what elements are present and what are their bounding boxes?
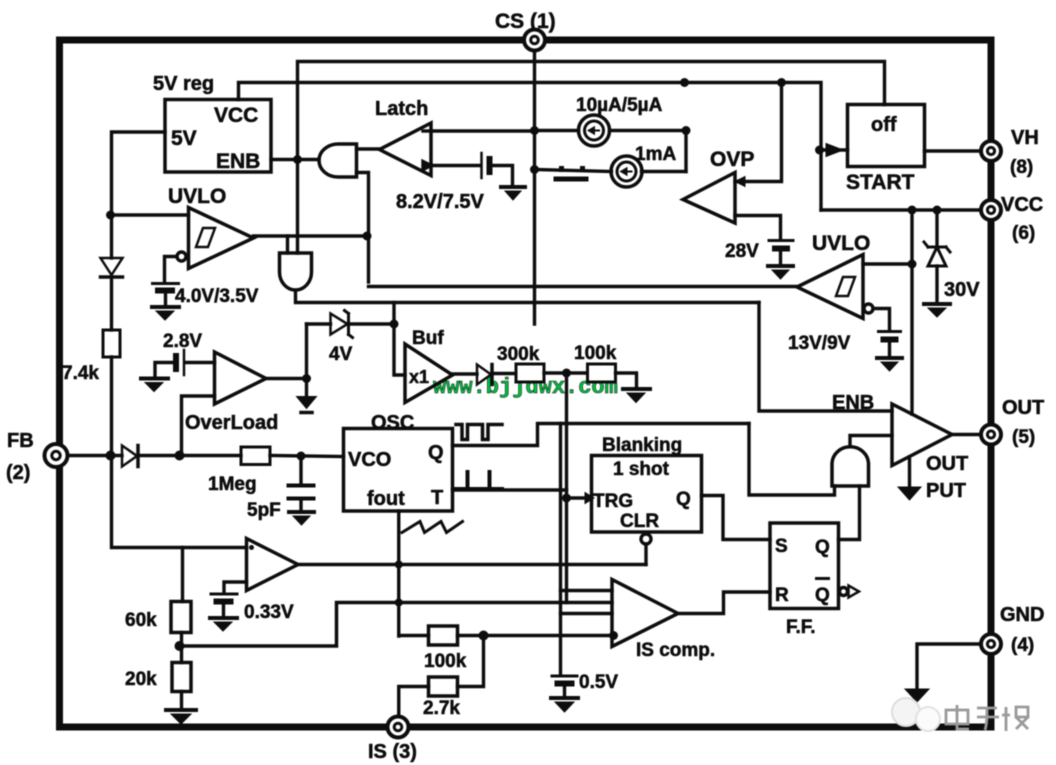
glyph 报 bbox=[1002, 707, 1028, 731]
terminals bottom bbox=[45, 425, 1002, 738]
svg-text:0.5V: 0.5V bbox=[579, 672, 618, 693]
svg-text:Blanking: Blanking bbox=[602, 435, 682, 456]
capacitor C1 5pF bbox=[299, 456, 302, 483]
pin CS (1) bbox=[524, 30, 545, 51]
svg-text:Buf: Buf bbox=[412, 328, 444, 349]
svg-text:UVLO: UVLO bbox=[812, 232, 870, 255]
svg-text:5V: 5V bbox=[171, 127, 197, 150]
ground arrow below driver bbox=[908, 457, 911, 487]
wire buf output bbox=[453, 372, 478, 375]
wire uvlo1 plus input bbox=[111, 213, 189, 216]
node FB left chain bbox=[110, 215, 113, 258]
svg-text:20k: 20k bbox=[125, 669, 157, 690]
svg-text:13V/9V: 13V/9V bbox=[788, 333, 851, 354]
wire G1 input from latch bbox=[357, 147, 380, 150]
svg-text:Latch: Latch bbox=[375, 98, 428, 120]
wire OVP minus input bbox=[735, 216, 781, 239]
svg-text:Q: Q bbox=[815, 585, 830, 606]
svg-text:1mA: 1mA bbox=[635, 144, 676, 165]
terminals bbox=[524, 30, 1001, 221]
svg-text:100k: 100k bbox=[574, 343, 617, 364]
battery 8.2V/7.5V bbox=[480, 153, 483, 178]
comparator OverLoad (points right) bbox=[215, 352, 267, 404]
comparator OVP (points left) bbox=[683, 173, 735, 224]
hysteresis symbol bbox=[836, 277, 855, 296]
pin FB (2) bbox=[45, 444, 68, 467]
resistor R5 60k bbox=[171, 602, 191, 633]
svg-text:UVLO: UVLO bbox=[168, 185, 226, 208]
svg-text:Q: Q bbox=[428, 442, 444, 464]
ground below 4.0V/3.5V bbox=[152, 305, 179, 309]
svg-text:IS comp.: IS comp. bbox=[636, 640, 715, 661]
5V regulator box U1 bbox=[165, 100, 271, 173]
driver OUT stage U7 bbox=[892, 404, 952, 466]
latch input tick top bbox=[423, 129, 431, 132]
wire START to VH bbox=[925, 149, 984, 152]
svg-text:(5): (5) bbox=[1012, 427, 1035, 448]
pin VH (8) bbox=[981, 141, 1001, 161]
wire comp output to CLR bbox=[298, 563, 646, 566]
svg-text:ENB: ENB bbox=[832, 392, 874, 414]
battery 28V bbox=[769, 239, 793, 242]
svg-text:10µA/5µA: 10µA/5µA bbox=[576, 95, 663, 116]
pin GND (4) bbox=[981, 634, 1001, 654]
svg-text:off: off bbox=[871, 114, 897, 136]
switch contact on CS net bbox=[559, 166, 564, 172]
ground left of 2.8V bbox=[141, 377, 168, 381]
svg-text:2.8V: 2.8V bbox=[163, 331, 202, 352]
wire minus input + battery 0.33V bbox=[224, 582, 247, 592]
wire OverLoad plus input + battery 2.8V bbox=[186, 361, 215, 364]
svg-text:FB: FB bbox=[7, 430, 34, 452]
and-gate G3 (points up) bbox=[832, 447, 869, 486]
waveform sawtooth fout bbox=[402, 522, 463, 533]
IC outline border bbox=[60, 40, 992, 727]
svg-text:OUT: OUT bbox=[1002, 397, 1044, 419]
svg-text:GND: GND bbox=[1000, 604, 1044, 626]
wire FF Q to and gate bbox=[839, 486, 860, 540]
ground below 30V bbox=[924, 302, 950, 306]
battery 0.5V bbox=[552, 675, 577, 678]
svg-text:1Meg: 1Meg bbox=[208, 474, 257, 495]
svg-text:OverLoad: OverLoad bbox=[185, 412, 278, 434]
vertical 4V net with arrow ground bbox=[305, 324, 308, 397]
resistor R4 100k bbox=[588, 364, 616, 382]
box START/off U2 bbox=[848, 105, 925, 167]
svg-text:(4): (4) bbox=[1011, 635, 1034, 656]
svg-text:T: T bbox=[431, 487, 443, 509]
vertical Q net down bbox=[559, 424, 562, 676]
wire 1mA branch y170 bbox=[535, 170, 612, 172]
CS net dots bbox=[530, 126, 539, 135]
wire to ENB driver bbox=[759, 303, 892, 412]
svg-text:Q: Q bbox=[815, 537, 830, 558]
wire OverLoad minus input from FB bbox=[182, 396, 215, 456]
comparator Latch (points left) bbox=[380, 123, 432, 176]
pin OUT (5) bbox=[981, 425, 1001, 445]
wire vcc-reg bus y82 bbox=[239, 83, 822, 211]
wire uvlo2 output bbox=[369, 285, 798, 288]
wire OSC T output bbox=[453, 488, 567, 491]
wire vcc to enb driver bbox=[910, 210, 913, 414]
wire driver output to OUT pin bbox=[952, 433, 982, 436]
wire OSC Q output bbox=[453, 424, 750, 446]
wire 4V node up to G2 output wire bbox=[392, 303, 395, 325]
comparator UVLO2 (points left) bbox=[797, 255, 863, 319]
svg-text:OVP: OVP bbox=[710, 148, 754, 171]
resistor R3 300k bbox=[516, 364, 544, 382]
ground for latch battery bbox=[501, 185, 525, 189]
bubble uvlo2 bbox=[864, 304, 873, 313]
wire latch bottom input bbox=[431, 164, 480, 167]
diode D1 (cathode down) bbox=[101, 258, 123, 275]
svg-text:CLR: CLR bbox=[620, 511, 659, 532]
svg-text:PUT: PUT bbox=[926, 480, 966, 502]
resistor R7 100k bbox=[429, 626, 458, 645]
wire 60k/20k node to IS comp minus bbox=[180, 603, 613, 647]
battery 13V/9V bbox=[879, 330, 901, 333]
box Blanking 1-shot U5 bbox=[592, 456, 702, 533]
resistor R2 1Meg bbox=[241, 447, 270, 465]
svg-text:START: START bbox=[846, 171, 915, 194]
wire IS stub top bbox=[561, 589, 613, 592]
svg-text:0.33V: 0.33V bbox=[244, 602, 294, 623]
bubble uvlo1 bbox=[177, 252, 186, 261]
ground below 13V/9V bbox=[877, 356, 902, 360]
battery 4.0V/3.5V bbox=[153, 282, 179, 285]
resistor R1 7.4k bbox=[103, 330, 120, 357]
svg-text:R: R bbox=[775, 585, 789, 606]
logo dianzibao (pale) bbox=[892, 698, 1028, 731]
wire 100k/2.7k sense network bbox=[484, 634, 613, 637]
svg-text:8.2V/7.5V: 8.2V/7.5V bbox=[396, 191, 485, 213]
svg-text:(8): (8) bbox=[1010, 157, 1033, 178]
svg-text:F.F.: F.F. bbox=[786, 617, 816, 638]
wire uvlo1 output bbox=[254, 234, 369, 237]
glyph 子 bbox=[977, 708, 999, 730]
bubble CLR bbox=[641, 534, 651, 544]
svg-text:Q: Q bbox=[676, 489, 691, 510]
buffer U3 x1 bbox=[405, 344, 453, 403]
wire G1 lower input bbox=[357, 173, 369, 283]
wire OVP plus input bbox=[735, 83, 782, 182]
wire 5V pin bbox=[112, 132, 166, 215]
bubble FF Qbar + arrow bbox=[840, 588, 848, 596]
wire G3 output to driver bbox=[850, 436, 892, 446]
svg-text:4.0V/3.5V: 4.0V/3.5V bbox=[175, 286, 259, 307]
ground below 20k bbox=[166, 708, 196, 712]
svg-text:100k: 100k bbox=[424, 651, 467, 672]
wire FB node down to comparator bbox=[112, 456, 247, 548]
G2 input stubs bbox=[286, 236, 289, 253]
wire 60k tap bbox=[181, 548, 184, 602]
svg-text:7.4k: 7.4k bbox=[62, 363, 99, 384]
waveform T glyph bbox=[456, 472, 502, 489]
svg-text:1 shot: 1 shot bbox=[613, 459, 670, 480]
ground below 100k bbox=[623, 387, 650, 391]
svg-text:5pF: 5pF bbox=[247, 500, 281, 521]
node CS vertical bbox=[533, 40, 536, 324]
wire OverLoad output bbox=[266, 377, 307, 380]
wire into START bbox=[821, 148, 848, 151]
wire 100k node down to TRG net bbox=[565, 373, 568, 603]
wire latch top input bbox=[431, 129, 535, 132]
wire uvlo1 minus input bbox=[165, 257, 178, 282]
svg-text:(2): (2) bbox=[6, 462, 30, 484]
box OSC U4 bbox=[344, 429, 453, 512]
current source I1 10uA/5uA bbox=[535, 129, 579, 132]
pin VCC (6) bbox=[981, 200, 1001, 220]
wire top bus y61 bbox=[298, 62, 885, 160]
svg-text:2.7k: 2.7k bbox=[423, 698, 460, 719]
G2 output bbox=[296, 291, 760, 303]
diode D2 (pointing right) bbox=[122, 446, 137, 467]
comparator UVLO1 (points right) bbox=[189, 208, 254, 269]
svg-text:5V reg: 5V reg bbox=[153, 73, 214, 95]
wire ENB pin bbox=[271, 158, 298, 161]
svg-text:300k: 300k bbox=[497, 344, 540, 365]
wire IS comp output to FF R bbox=[678, 592, 770, 614]
wire GND pin bbox=[917, 644, 982, 689]
wire FB input bbox=[66, 454, 122, 457]
zener D3 30V bbox=[935, 210, 938, 245]
resistor R6 20k bbox=[172, 663, 191, 692]
waveform Q glyph bbox=[456, 425, 502, 440]
latch input arrow bottom bbox=[423, 162, 431, 170]
svg-text:OUT: OUT bbox=[926, 453, 968, 475]
comparator IS comp bbox=[612, 580, 678, 647]
and-gate G2 (points down) bbox=[280, 253, 312, 290]
svg-text:IS (3): IS (3) bbox=[368, 741, 417, 763]
wire blanking top to and gate bbox=[749, 424, 835, 496]
svg-text:28V: 28V bbox=[725, 241, 759, 262]
FF Qbar overbar bbox=[815, 577, 830, 580]
wire TRG input bbox=[567, 496, 592, 499]
wire IS stub mid bbox=[561, 612, 613, 615]
diode D5 (pointing right) bbox=[477, 365, 491, 385]
wire uvlo2 top input bbox=[863, 262, 912, 265]
ENB junction dot bbox=[293, 155, 302, 164]
svg-text:CS (1): CS (1) bbox=[495, 10, 556, 33]
and-gate G1 (mirrored, output left) bbox=[319, 144, 357, 177]
wire G1 output to ENB node bbox=[298, 158, 320, 161]
wire blanking Q to FF S bbox=[702, 496, 771, 540]
ground below 5pF bbox=[289, 510, 314, 514]
svg-text:(6): (6) bbox=[1012, 223, 1035, 244]
svg-text:4V: 4V bbox=[329, 344, 353, 365]
svg-text:x1: x1 bbox=[409, 367, 429, 387]
svg-text:VCC: VCC bbox=[1001, 194, 1043, 216]
svg-text:VH: VH bbox=[1011, 127, 1039, 149]
hysteresis symbol bbox=[196, 228, 215, 247]
svg-text:ENB: ENB bbox=[216, 150, 260, 173]
svg-text:fout: fout bbox=[367, 488, 405, 510]
ground below 0.5V bbox=[551, 696, 578, 700]
diode D4 4V (zener, pointing right) bbox=[307, 322, 331, 325]
svg-text:VCC: VCC bbox=[214, 104, 258, 127]
current source I2 1mA bbox=[611, 156, 642, 187]
svg-text:VCO: VCO bbox=[348, 449, 391, 471]
svg-text:60k: 60k bbox=[125, 610, 157, 631]
pin IS (3) bbox=[388, 717, 409, 738]
glyph 电 bbox=[946, 705, 969, 729]
svg-text:OSC: OSC bbox=[371, 412, 414, 434]
ground below 0.33V bbox=[210, 616, 237, 620]
wire 4V node to Buf input bbox=[394, 324, 405, 375]
comparator error amp (0.33V) bbox=[247, 539, 299, 591]
box flip-flop U6 bbox=[770, 523, 839, 609]
wire fout down bbox=[397, 511, 400, 636]
wire uvlo2 lower input bbox=[873, 309, 890, 330]
svg-text:TRG: TRG bbox=[593, 491, 633, 512]
ground below 28V bbox=[768, 264, 793, 268]
svg-text:S: S bbox=[775, 536, 788, 557]
resistor R8 2.7k bbox=[429, 677, 458, 696]
wire VCC bus y210 bbox=[821, 208, 983, 211]
svg-text:30V: 30V bbox=[944, 279, 980, 301]
